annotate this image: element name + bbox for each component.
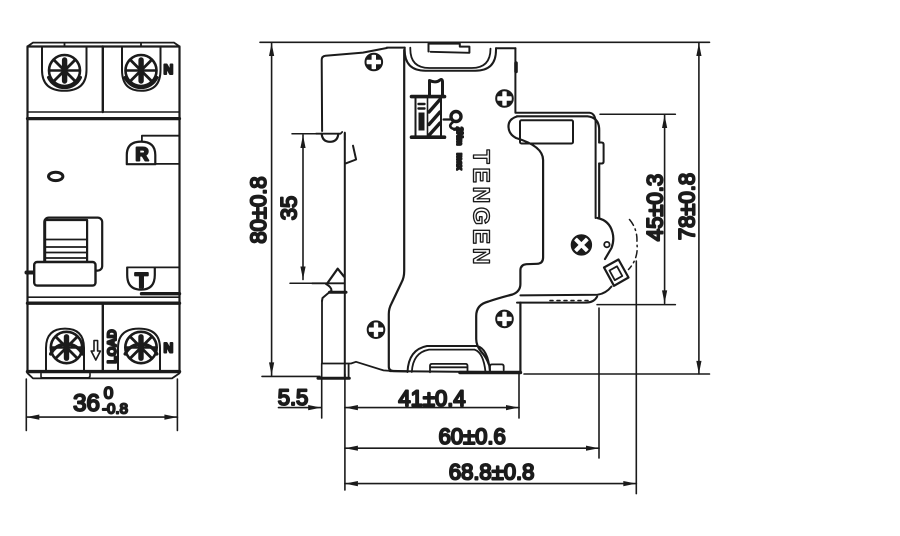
svg-text:R: R (135, 144, 148, 165)
bottom terminal screw R (125, 332, 156, 363)
dim 5.5 (279, 364, 322, 419)
dim 41 (345, 374, 519, 490)
svg-text:T: T (135, 269, 148, 293)
dim 60 (345, 308, 599, 458)
side view bottom right foot edge (519, 303, 521, 373)
face separation top (28, 111, 180, 113)
svg-text:TENGEN: TENGEN (469, 150, 495, 269)
side view din clip top foot (316, 48, 387, 142)
side view right edge tab (599, 143, 603, 164)
top terminal screw L (49, 55, 80, 86)
side view screw top-right (496, 90, 513, 107)
dim 68.8 (345, 261, 636, 494)
side view bottom step (517, 287, 612, 303)
side view din clip hook (346, 146, 356, 164)
side view screw bottom-left (368, 321, 385, 338)
side view face right boundary (476, 117, 543, 365)
toggle recess (44, 218, 102, 271)
svg-text:5.5: 5.5 (278, 385, 309, 410)
side view slide tabs (430, 364, 504, 372)
toggle handle (34, 220, 95, 286)
svg-text:41±0.4: 41±0.4 (398, 386, 465, 411)
side view screw top-left (366, 54, 383, 71)
pole divider top (102, 47, 104, 113)
extension line top (260, 41, 710, 43)
svg-text:-0.8: -0.8 (102, 401, 128, 418)
front view bottom lip (28, 372, 180, 379)
svg-text:36: 36 (73, 390, 100, 417)
side view bottom edge (390, 371, 520, 372)
extension line bottom right (524, 373, 710, 375)
side view latch dashed arc (629, 220, 638, 270)
svg-text:max: max (455, 153, 465, 170)
side view din slide loop (408, 346, 491, 372)
torque icon (444, 112, 462, 132)
side view latch pivot hole (604, 242, 609, 247)
dim 45 (597, 114, 675, 304)
dim 78 (696, 43, 701, 374)
svg-text:68.8±0.8: 68.8±0.8 (449, 460, 534, 485)
sticker flag (430, 80, 443, 95)
side view face left edge (389, 50, 408, 371)
dim 35 line (290, 134, 316, 284)
R button (127, 136, 180, 165)
indicator oval (49, 172, 63, 180)
svg-text:45±0.3: 45±0.3 (643, 174, 668, 241)
svg-text:N: N (164, 341, 174, 356)
bottom terminal screw L (51, 332, 82, 363)
svg-text:N: N (164, 62, 174, 77)
pole divider bottom (102, 303, 104, 371)
bottom terminal well L (46, 329, 84, 372)
dim 80 line (262, 43, 320, 376)
svg-text:LOAD: LOAD (105, 329, 119, 363)
side view latch tab (604, 260, 629, 286)
side view din clip front edge (344, 133, 346, 379)
top terminal well L (42, 47, 87, 91)
load arrow (91, 341, 100, 361)
toggle side tick (27, 271, 34, 275)
side view din clip bottom tooth (312, 269, 346, 301)
svg-text:60±0.6: 60±0.6 (439, 424, 506, 449)
top terminal well R (122, 47, 161, 91)
side view din clip bottom foot (318, 301, 390, 378)
svg-text:35: 35 (277, 196, 302, 220)
svg-text:2Nm: 2Nm (455, 127, 465, 146)
bottom terminal well R (118, 329, 160, 372)
dim 36 (26, 379, 177, 431)
T button (127, 267, 179, 293)
svg-text:80±0.8: 80±0.8 (246, 176, 271, 243)
front view top lip (28, 43, 180, 47)
side view body top edge (387, 47, 516, 50)
top terminal screw R (126, 55, 157, 86)
sticker body (412, 97, 445, 138)
side view toggle slot (405, 48, 496, 71)
side view screw bottom-right (496, 311, 513, 328)
side view toggle handle tab (429, 44, 470, 53)
front view body outline (28, 47, 180, 372)
side view top terminal block (515, 48, 599, 218)
side view latch screw (572, 235, 591, 254)
side view latch bulge (597, 218, 613, 259)
face separation bottom (28, 296, 180, 298)
svg-text:78±0.8: 78±0.8 (674, 173, 699, 240)
